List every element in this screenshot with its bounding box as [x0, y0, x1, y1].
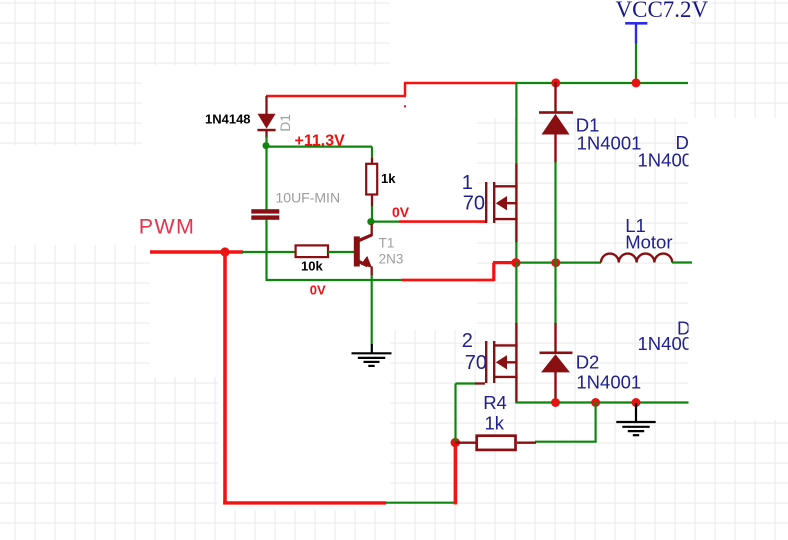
mosfet Q2 bulk arrow: [506, 361, 518, 363]
transistor T1 collector diagonal: [359, 235, 372, 241]
transistor T1 emitter lead: [371, 267, 373, 277]
diode D1 1N4148 cathode bar: [257, 129, 275, 132]
wire green bottom to R4 node: [385, 502, 456, 504]
svg-text:R4: R4: [483, 392, 507, 413]
transistor T1 emitter arrow: [361, 256, 372, 268]
resistor 1k body: [366, 164, 377, 195]
svg-text:D1: D1: [277, 114, 293, 132]
transistor T1 emitter diagonal: [359, 262, 368, 266]
wire green +11.3V rail: [266, 146, 372, 148]
wire VCC stub blue: [635, 25, 637, 44]
mosfet Q2 gate bar: [485, 341, 487, 383]
wire green mid rail: [515, 262, 601, 264]
svg-text:1N4001: 1N4001: [577, 132, 642, 153]
wire green to R1k top: [371, 147, 373, 159]
wire red elbow up: [493, 263, 516, 281]
svg-text:1: 1: [462, 172, 473, 194]
svg-text:0V: 0V: [310, 282, 326, 297]
mosfet Q1 bulk arrow: [506, 202, 518, 204]
wire red Q1 gate: [399, 220, 485, 223]
wire green Q2 gate down: [456, 384, 477, 443]
svg-text:1N4001: 1N4001: [576, 372, 641, 393]
resistor R4 right lead: [517, 442, 536, 444]
diode D1 1N4148 triangle: [258, 114, 276, 129]
junction red top1: [551, 78, 560, 87]
junction red bot1: [551, 398, 560, 407]
mosfet Q1 gate bar: [485, 182, 487, 223]
wire green 10k to base: [328, 251, 354, 253]
wire red 0V rail: [402, 279, 494, 282]
diode D1 1N4001 upper lead: [554, 82, 556, 112]
diode D2 lower lead: [554, 372, 556, 403]
svg-text:PWM: PWM: [139, 215, 195, 239]
diode D1 1N4001 lower lead: [554, 134, 556, 163]
wire red step: [404, 82, 407, 96]
resistor 1k bottom lead: [371, 195, 373, 207]
diode D1 1N4148 lower lead: [265, 131, 267, 138]
wire green 0V rail: [267, 279, 404, 281]
wire VCC stub green: [635, 43, 637, 85]
wire green cap bottom: [265, 220, 267, 282]
wire VCC rail green top: [515, 82, 688, 84]
wire green R4 right riser: [535, 402, 597, 442]
svg-text:0V: 0V: [392, 204, 410, 220]
resistor R4 body: [477, 436, 516, 450]
wire green L1 right: [672, 261, 692, 263]
svg-text:70: 70: [465, 352, 487, 374]
mosfet Q2 drain arm: [494, 344, 518, 346]
wire green R1k to node: [371, 206, 400, 222]
junction red top2: [632, 78, 641, 87]
wire red PWM bottom: [223, 501, 386, 504]
svg-text:1k: 1k: [485, 413, 505, 434]
wire green T1 emitter down: [371, 275, 373, 345]
wire green Q1 source down: [515, 242, 517, 263]
svg-text:D2: D2: [576, 352, 600, 373]
wire green D1 to mid: [554, 162, 556, 263]
junction red mid2: [551, 258, 560, 267]
wire red top rail: [404, 82, 516, 85]
mosfet Q2 drain lead: [515, 323, 517, 403]
svg-text:10k: 10k: [301, 259, 323, 274]
svg-text:Motor: Motor: [625, 231, 672, 252]
right white box that cuts labels: [689, 118, 788, 420]
junction green A: [263, 142, 270, 149]
wire green D2 top: [554, 262, 556, 324]
ground GND1: [352, 344, 392, 366]
svg-text:10UF-MIN: 10UF-MIN: [276, 190, 341, 206]
svg-text:1k: 1k: [381, 171, 396, 186]
wire red PWM down: [223, 252, 227, 504]
resistor 10k body: [296, 245, 328, 257]
diode D1 1N4148 anode lead: [265, 96, 267, 115]
wire green bottom rail: [515, 401, 689, 403]
svg-text:1N4148: 1N4148: [205, 112, 251, 127]
mosfet Q1 source arm: [494, 218, 518, 220]
diode D2 upper lead: [554, 323, 556, 352]
svg-text:VCC7.2V: VCC7.2V: [616, 0, 709, 22]
transistor T1 base bar: [354, 236, 360, 266]
stray red dot: [404, 105, 406, 107]
junction red PWM: [220, 247, 229, 256]
ground GND2: [616, 403, 655, 435]
wire red R4 node up: [454, 443, 458, 504]
power flag VCC blue bar: [625, 22, 647, 25]
capacitor C1 plate bottom: [251, 215, 279, 219]
wire green Q2 drain up: [515, 262, 517, 324]
wire green below 1N4148: [265, 137, 267, 211]
mosfet Q2 source arm: [494, 376, 518, 378]
junction red mid1: [511, 258, 520, 267]
mosfet Q1 drain lead: [515, 163, 517, 243]
diode D1 1N4001 cathode bar: [539, 111, 573, 114]
svg-text:2: 2: [462, 330, 473, 352]
transistor T1 collector lead: [371, 224, 373, 236]
wire green to 10k: [242, 251, 296, 253]
junction green B: [367, 218, 374, 225]
resistor R4 left lead: [456, 442, 477, 444]
capacitor C1 plate top: [251, 209, 279, 213]
mosfet Q2 channel bar: [493, 341, 495, 383]
resistor 1k top lead: [371, 158, 373, 164]
diode D2 cathode bar: [540, 352, 573, 355]
svg-text:70: 70: [463, 193, 485, 215]
wire green Q1 drain up: [515, 82, 517, 164]
svg-text:2N3: 2N3: [379, 252, 404, 267]
wire red PWM in: [150, 250, 243, 253]
mosfet Q1 drain arm: [494, 185, 518, 187]
junction red R4 node: [451, 438, 460, 447]
inductor L1 coil: [601, 254, 672, 263]
wire darkred Q2 gate lead: [475, 382, 485, 384]
wire red upper-left: [266, 95, 406, 98]
svg-text:T1: T1: [379, 235, 395, 250]
junction red bot2: [591, 398, 600, 407]
diode D1 1N4001 triangle: [542, 114, 570, 135]
junction red bot3: [632, 398, 641, 407]
diode D2 triangle: [541, 354, 570, 372]
mosfet Q1 channel bar: [493, 182, 495, 223]
